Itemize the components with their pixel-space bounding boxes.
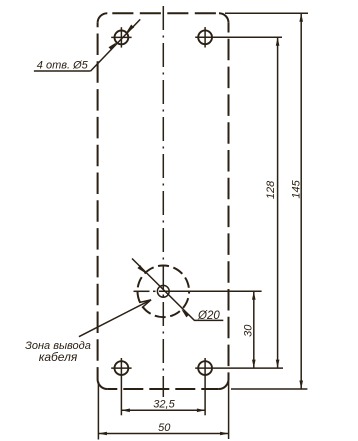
crosshair bottom-right hole + extensions — [195, 358, 283, 415]
leader zona vyvoda kabelya — [79, 300, 151, 337]
arrow D20 upper — [137, 265, 145, 273]
hole bottom-right — [198, 361, 212, 375]
extension line right for 50 — [228, 382, 230, 440]
dimension line 128 — [277, 37, 279, 368]
leader 4 otv D5: underline — [34, 70, 91, 72]
arrow D5 lower — [109, 42, 117, 50]
svg-text:50: 50 — [158, 422, 171, 434]
center cable hole small circle — [157, 285, 169, 297]
svg-text:Ø20: Ø20 — [197, 310, 220, 322]
svg-text:145: 145 — [291, 179, 303, 198]
svg-text:128: 128 — [265, 180, 277, 199]
dimension line 50 — [98, 433, 228, 435]
leader 4 otv D5: diagonal through hole — [91, 19, 141, 71]
dimension line 32,5 — [121, 409, 205, 411]
dimension line 145 — [300, 13, 302, 389]
svg-text:32,5: 32,5 — [153, 399, 175, 411]
hole bottom-left — [115, 361, 129, 375]
crosshair top-right hole + extension for 128 — [195, 27, 282, 47]
leader D20 diagonal — [132, 259, 223, 321]
svg-text:кабеля: кабеля — [39, 350, 78, 364]
hole top-left — [115, 31, 129, 45]
crosshair top-left hole — [111, 27, 131, 47]
extension line top (145) — [225, 12, 308, 14]
open arrow zona — [139, 300, 151, 308]
arrow D20 lower — [181, 309, 189, 317]
vertical centerline — [162, 6, 164, 397]
extension line bottom (145) — [231, 388, 307, 390]
arrow D5 upper — [126, 25, 134, 33]
extension line left for 50 — [97, 382, 99, 440]
crosshair bottom-left hole + extension for 32,5 — [111, 358, 131, 415]
dimension line 30 — [253, 291, 255, 368]
cable zone dashed circle D20 — [138, 266, 190, 318]
svg-text:4 отв. Ø5: 4 отв. Ø5 — [37, 60, 89, 72]
plate outline dashed rounded rect — [98, 13, 229, 389]
svg-text:30: 30 — [243, 324, 255, 337]
center hole horizontal centerline + extension for 30 — [134, 290, 262, 292]
hole top-right — [198, 30, 212, 44]
